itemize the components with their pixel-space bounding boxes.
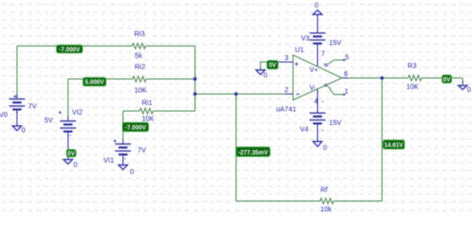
svg-text:10K: 10K [142,116,155,123]
svg-text:14.61V: 14.61V [384,143,403,149]
svg-text:VI2: VI2 [72,110,83,117]
svg-text:7: 7 [321,51,325,58]
svg-text:V-: V- [310,85,317,92]
svg-text:Ri3: Ri3 [134,31,145,38]
svg-text:10k: 10k [320,207,332,214]
svg-text:4: 4 [314,99,318,106]
svg-text:V3: V3 [301,36,310,43]
svg-text:0: 0 [467,87,471,94]
svg-text:5: 5 [345,55,349,62]
svg-text:0: 0 [323,145,327,152]
svg-text:0: 0 [315,2,319,9]
svg-text:-7.000V: -7.000V [125,126,146,132]
svg-text:3: 3 [285,55,289,62]
svg-text:-277.35mV: -277.35mV [238,150,268,156]
svg-text:5.000V: 5.000V [85,80,104,86]
svg-text:5k: 5k [135,53,143,60]
svg-text:0V: 0V [68,151,75,157]
svg-text:V4: V4 [300,127,309,134]
svg-text:0V: 0V [443,77,450,83]
svg-text:10K: 10K [134,88,147,95]
svg-text:6: 6 [344,71,348,78]
svg-text:0: 0 [264,73,268,80]
svg-text:5V: 5V [44,118,53,125]
svg-text:1: 1 [345,89,349,96]
svg-text:-7.000V: -7.000V [59,47,80,53]
svg-text:V0: V0 [0,112,8,119]
svg-text:0: 0 [130,169,134,176]
svg-text:Ri1: Ri1 [142,100,153,107]
svg-text:uA741: uA741 [276,107,296,114]
svg-text:Ri2: Ri2 [135,64,146,71]
svg-text:R3: R3 [408,63,417,70]
svg-text:7V: 7V [28,104,37,111]
svg-text:VI1: VI1 [104,158,115,165]
svg-text:0: 0 [22,127,26,134]
svg-text:2: 2 [285,87,289,94]
svg-text:0V: 0V [269,63,276,69]
svg-text:7V: 7V [138,148,147,155]
svg-text:0: 0 [74,162,78,169]
svg-text:10K: 10K [406,84,419,91]
svg-text:U1: U1 [295,47,304,54]
svg-text:15V: 15V [329,40,342,47]
svg-text:V+: V+ [310,67,319,74]
svg-text:15V: 15V [329,120,342,127]
svg-text:Rf: Rf [321,187,328,194]
